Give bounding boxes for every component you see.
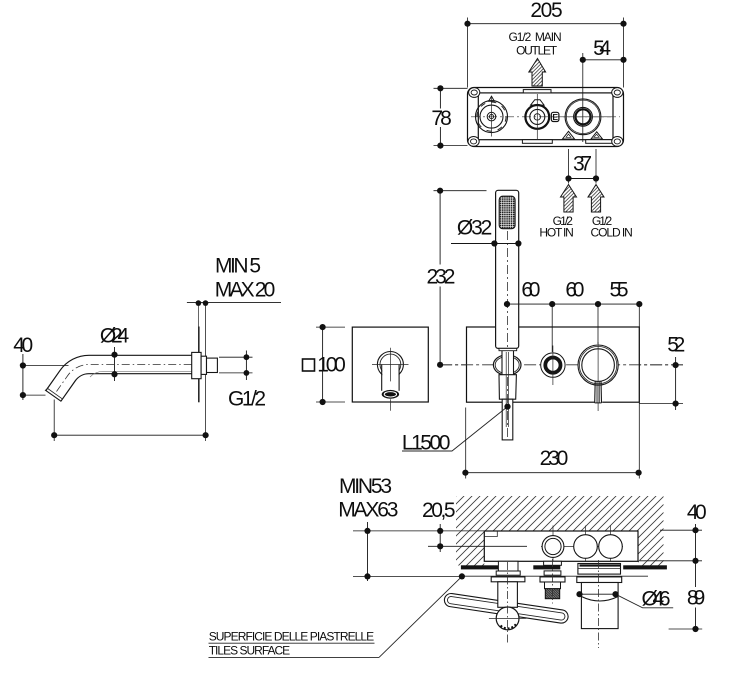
svg-text:40: 40: [13, 334, 33, 357]
svg-text:205: 205: [530, 0, 562, 22]
svg-text:55: 55: [610, 278, 629, 301]
svg-text:Ø32: Ø32: [457, 217, 493, 240]
svg-text:HOT IN: HOT IN: [539, 225, 573, 239]
svg-text:Ø46: Ø46: [642, 587, 671, 610]
svg-text:MAX 20: MAX 20: [215, 278, 275, 301]
svg-text:COLD IN: COLD IN: [591, 225, 633, 239]
svg-text:40: 40: [687, 501, 707, 524]
svg-text:Ø24: Ø24: [100, 324, 130, 347]
svg-text:L1500: L1500: [402, 432, 451, 455]
svg-text:MIN53: MIN53: [339, 475, 392, 498]
svg-text:MAX63: MAX63: [338, 498, 398, 521]
svg-text:100: 100: [317, 354, 346, 377]
svg-text:OUTLET: OUTLET: [516, 44, 558, 58]
svg-text:20,5: 20,5: [422, 499, 456, 522]
svg-text:E: E: [552, 112, 558, 122]
svg-text:89: 89: [687, 587, 705, 610]
svg-text:SUPERFICIE DELLE PIASTRELLE: SUPERFICIE DELLE PIASTRELLE: [209, 630, 375, 644]
svg-text:MIN 5: MIN 5: [215, 255, 261, 278]
svg-text:TILES SURFACE: TILES SURFACE: [209, 643, 291, 657]
svg-text:230: 230: [540, 447, 569, 470]
svg-text:78: 78: [431, 107, 451, 130]
svg-text:232: 232: [427, 265, 456, 288]
svg-text:G1/2: G1/2: [228, 387, 266, 410]
svg-text:37: 37: [573, 152, 592, 175]
svg-text:54: 54: [593, 37, 611, 60]
svg-text:G1/2 MAIN: G1/2 MAIN: [509, 30, 562, 44]
svg-text:60: 60: [565, 278, 584, 301]
svg-text:60: 60: [521, 278, 540, 301]
svg-text:52: 52: [667, 334, 685, 357]
